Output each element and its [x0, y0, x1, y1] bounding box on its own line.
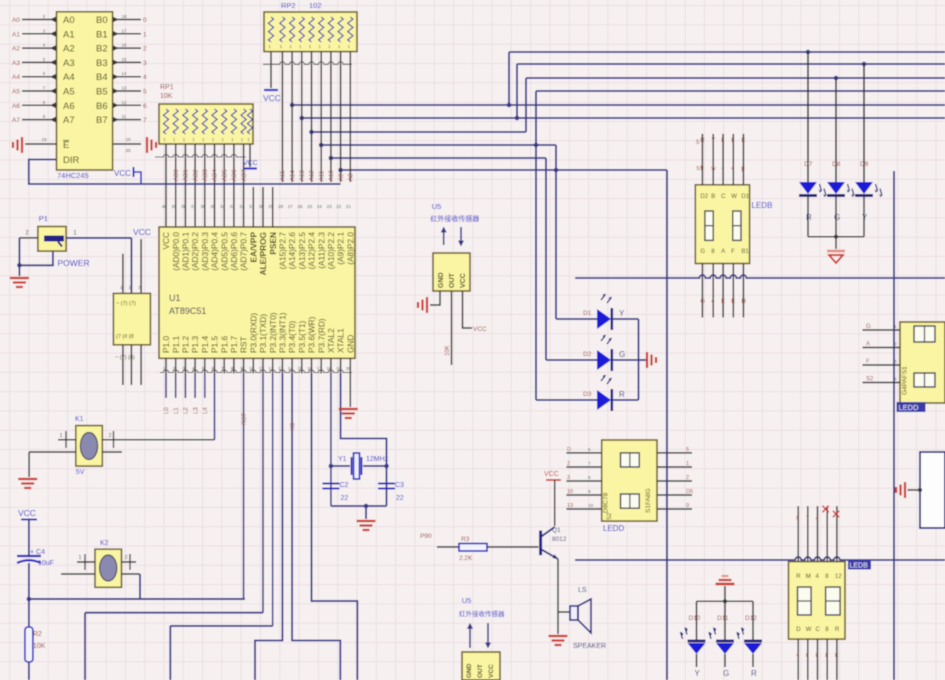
svg-text:AD4: AD4	[213, 169, 219, 181]
svg-text:L2: L2	[184, 407, 190, 414]
svg-text:4: 4	[816, 516, 819, 522]
svg-text:B6: B6	[96, 101, 108, 112]
svg-text:B7: B7	[96, 115, 108, 126]
svg-text:(AD7)P0.7: (AD7)P0.7	[239, 232, 249, 271]
svg-text:VCC: VCC	[18, 508, 36, 518]
svg-text:G: G	[866, 324, 871, 330]
svg-text:Y: Y	[619, 309, 625, 318]
svg-text:A9: A9	[339, 173, 345, 181]
svg-text:w: w	[710, 166, 716, 172]
svg-text:L: L	[825, 653, 828, 659]
svg-text:22: 22	[341, 495, 349, 502]
svg-text:13: 13	[567, 503, 573, 509]
svg-text:P3.5(T1): P3.5(T1)	[297, 320, 307, 353]
svg-text:G: G	[700, 249, 705, 255]
svg-text:~ (7) (8): ~ (7) (8)	[115, 355, 135, 361]
svg-text:E: E	[63, 140, 69, 151]
svg-text:OUT: OUT	[449, 273, 456, 289]
svg-text:2: 2	[124, 555, 127, 561]
svg-text:(AD6)P0.6: (AD6)P0.6	[229, 232, 239, 271]
svg-text:15: 15	[121, 57, 127, 62]
svg-text:G: G	[723, 669, 729, 678]
svg-text:(7 (# (8: (7 (# (8	[116, 334, 134, 340]
svg-text:E: E	[741, 138, 745, 144]
svg-text:27: 27	[288, 204, 294, 209]
svg-text:A8: A8	[349, 173, 355, 181]
svg-text:Y: Y	[862, 213, 868, 222]
svg-text:29: 29	[268, 204, 274, 209]
svg-text:23: 23	[327, 204, 333, 209]
svg-text:A: A	[721, 249, 725, 255]
svg-text:A4: A4	[63, 72, 75, 83]
svg-text:B4: B4	[96, 72, 108, 83]
svg-text:AD6: AD6	[232, 169, 238, 181]
svg-text:A1: A1	[12, 31, 20, 38]
svg-text:7: 7	[143, 117, 147, 124]
svg-text:(A14)P2.6: (A14)P2.6	[287, 232, 297, 270]
svg-text:P3.3(INT1): P3.3(INT1)	[278, 312, 288, 353]
svg-text:10: 10	[125, 137, 131, 142]
svg-text:VCC: VCC	[133, 227, 151, 237]
svg-text:21: 21	[346, 204, 352, 209]
svg-text:P3.1(TXD): P3.1(TXD)	[258, 314, 268, 353]
svg-text:36: 36	[200, 204, 206, 209]
svg-text:(A9)P2.1: (A9)P2.1	[336, 232, 346, 265]
svg-text:(AD1)P0.1: (AD1)P0.1	[181, 232, 191, 271]
svg-text:A4: A4	[12, 74, 20, 81]
svg-text:~ (7) (7): ~ (7) (7)	[116, 301, 136, 307]
svg-text:D11: D11	[717, 615, 729, 622]
svg-text:(AD4)P0.4: (AD4)P0.4	[210, 232, 220, 271]
svg-text:5: 5	[686, 447, 689, 453]
svg-text:K2: K2	[100, 540, 109, 547]
svg-text:(A10)P2.2: (A10)P2.2	[326, 232, 336, 270]
svg-text:5: 5	[143, 89, 147, 96]
svg-text:U5: U5	[462, 596, 472, 605]
svg-text:G: G	[619, 350, 625, 359]
svg-text:D9: D9	[860, 161, 869, 168]
svg-text:D12: D12	[745, 615, 757, 622]
svg-text:W: W	[806, 627, 812, 633]
svg-text:R: R	[835, 627, 840, 633]
svg-text:R: R	[806, 213, 812, 222]
svg-text:S2: S2	[866, 377, 874, 383]
svg-text:F: F	[866, 359, 870, 365]
svg-text:DIR: DIR	[63, 155, 80, 166]
svg-text:AD7: AD7	[242, 169, 248, 181]
svg-text:P1.4: P1.4	[200, 336, 210, 353]
svg-text:28: 28	[278, 204, 284, 209]
svg-text:2: 2	[108, 433, 111, 439]
svg-text:D8: D8	[832, 161, 841, 168]
svg-text:2: 2	[143, 46, 147, 53]
svg-text:R: R	[751, 669, 757, 678]
svg-text:E: E	[721, 299, 725, 305]
svg-text:-: -	[721, 166, 723, 172]
svg-text:10K: 10K	[160, 93, 173, 100]
svg-text:RP2: RP2	[281, 1, 296, 10]
svg-text:26: 26	[297, 204, 303, 209]
svg-text:A7: A7	[12, 117, 20, 124]
svg-text:AD2: AD2	[193, 169, 199, 181]
svg-text:VCC: VCC	[263, 93, 281, 103]
svg-text:2.2K: 2.2K	[459, 555, 473, 562]
svg-text:E: E	[731, 299, 735, 305]
svg-text:+ C4: + C4	[30, 549, 45, 556]
svg-text:A12: A12	[310, 170, 316, 181]
svg-text:R: R	[700, 138, 705, 144]
svg-text:P1.3: P1.3	[190, 336, 200, 353]
svg-text:GND: GND	[466, 663, 473, 678]
svg-text:P1.0: P1.0	[161, 336, 171, 353]
svg-text:POWER: POWER	[58, 258, 90, 268]
svg-text:Q1: Q1	[552, 527, 561, 534]
svg-text:R2: R2	[33, 631, 42, 638]
svg-text:RST: RST	[239, 336, 249, 353]
svg-text:A1: A1	[63, 29, 75, 40]
svg-text:(A12)P2.4: (A12)P2.4	[307, 232, 317, 270]
svg-text:34: 34	[220, 204, 226, 209]
svg-text:K0: K0	[290, 422, 296, 430]
svg-text:E: E	[835, 653, 839, 659]
svg-text:D8C78: D8C78	[603, 492, 610, 513]
svg-text:12: 12	[121, 100, 127, 105]
svg-text:R: R	[796, 574, 801, 580]
svg-text:XTAL2: XTAL2	[326, 328, 336, 353]
svg-text:LEDD: LEDD	[603, 524, 625, 533]
svg-text:VCC: VCC	[161, 232, 171, 250]
svg-text:P1.6: P1.6	[219, 336, 229, 353]
svg-text:G4PAFS1: G4PAFS1	[902, 366, 909, 395]
svg-text:VCC: VCC	[473, 326, 487, 333]
svg-text:ALE/PROG: ALE/PROG	[258, 232, 268, 275]
svg-text:K1: K1	[75, 416, 84, 423]
svg-text:B0: B0	[96, 15, 108, 26]
svg-text:4: 4	[796, 653, 799, 659]
svg-text:4: 4	[143, 74, 147, 81]
svg-text:B1: B1	[741, 249, 749, 255]
svg-text:C: C	[721, 194, 726, 200]
svg-text:红外接收传感器: 红外接收传感器	[430, 214, 479, 223]
svg-text:F: F	[731, 249, 735, 255]
svg-text:C2: C2	[340, 482, 349, 489]
svg-text:31: 31	[249, 204, 255, 209]
svg-text:AD1: AD1	[184, 169, 190, 181]
svg-text:2: 2	[567, 461, 570, 467]
svg-text:LEDD: LEDD	[899, 403, 920, 412]
svg-text:SPEAKER: SPEAKER	[573, 643, 606, 650]
svg-text:U5: U5	[432, 202, 442, 211]
svg-text:P3.4(T0): P3.4(T0)	[287, 320, 297, 353]
svg-text:RP1: RP1	[160, 84, 174, 91]
svg-text:L1: L1	[174, 407, 180, 414]
svg-text:A11: A11	[319, 170, 325, 181]
svg-text:H: H	[741, 299, 745, 305]
svg-text:17: 17	[121, 28, 127, 33]
svg-text:3: 3	[567, 475, 570, 481]
svg-text:GND: GND	[345, 335, 355, 353]
svg-text:Y: Y	[695, 669, 701, 678]
svg-text:D1: D1	[583, 310, 592, 317]
svg-text:Y: Y	[711, 138, 715, 144]
svg-text:1: 1	[686, 461, 689, 467]
svg-text:(AD5)P0.5: (AD5)P0.5	[219, 232, 229, 271]
svg-text:D2: D2	[700, 194, 708, 200]
svg-text:10K: 10K	[33, 643, 46, 650]
svg-text:C3: C3	[395, 482, 404, 489]
svg-text:D7: D7	[804, 161, 813, 168]
svg-text:P1.7: P1.7	[229, 336, 239, 353]
svg-text:LS: LS	[578, 587, 587, 594]
svg-text:P1.1: P1.1	[171, 336, 181, 353]
svg-text:L3: L3	[193, 407, 199, 414]
svg-text:PSEN: PSEN	[268, 232, 278, 255]
svg-text:A3: A3	[63, 58, 75, 69]
svg-text:GND: GND	[438, 272, 445, 288]
svg-text:EA/VPP: EA/VPP	[248, 232, 258, 263]
svg-text:B: B	[711, 194, 715, 200]
svg-text:16: 16	[121, 43, 127, 48]
svg-text:LEDB: LEDB	[752, 201, 773, 210]
svg-text:5V: 5V	[76, 469, 85, 476]
svg-text:W: W	[731, 194, 737, 200]
svg-text:LEDB: LEDB	[850, 563, 869, 570]
svg-text:10: 10	[588, 503, 594, 508]
svg-text:AT89C51: AT89C51	[169, 306, 206, 316]
svg-text:G: G	[700, 299, 705, 305]
svg-text:A2: A2	[12, 46, 20, 53]
svg-text:18: 18	[121, 14, 127, 19]
svg-text:S1: S1	[696, 166, 703, 172]
svg-text:1: 1	[143, 31, 147, 38]
svg-text:1: 1	[78, 555, 81, 561]
svg-text:(AD0)P0.0: (AD0)P0.0	[171, 232, 181, 271]
svg-text:XTAL1: XTAL1	[336, 328, 346, 353]
svg-text:38: 38	[181, 204, 187, 209]
svg-text:37: 37	[191, 204, 197, 209]
svg-text:5: 5	[796, 516, 799, 522]
svg-text:10: 10	[567, 489, 573, 495]
svg-text:M: M	[806, 574, 811, 580]
svg-text:R: R	[619, 390, 625, 399]
svg-text:33: 33	[230, 204, 236, 209]
svg-text:(A11)P2.3: (A11)P2.3	[316, 232, 326, 269]
svg-text:U1: U1	[169, 293, 181, 303]
svg-text:8: 8	[806, 653, 809, 659]
svg-text:B3: B3	[96, 58, 108, 69]
svg-text:40: 40	[162, 204, 168, 209]
svg-text:35: 35	[210, 204, 216, 209]
svg-text:13: 13	[121, 86, 127, 91]
svg-text:(A8)P2.0: (A8)P2.0	[345, 232, 355, 265]
svg-text:B5: B5	[96, 87, 108, 98]
svg-text:VCC: VCC	[243, 160, 258, 167]
svg-text:25: 25	[307, 204, 313, 209]
svg-text:A2: A2	[63, 44, 75, 55]
svg-text:红外接收传感器: 红外接收传感器	[459, 609, 505, 618]
svg-text:8012: 8012	[552, 536, 567, 543]
svg-text:B1: B1	[96, 29, 108, 40]
svg-text:G: G	[834, 213, 840, 222]
svg-text:L: L	[816, 653, 819, 659]
svg-text:OUT: OUT	[477, 664, 484, 678]
svg-text:S1FA8G: S1FA8G	[645, 488, 652, 513]
svg-text:C: C	[816, 627, 821, 633]
svg-text:RST: RST	[242, 413, 248, 425]
svg-text:11: 11	[122, 114, 127, 119]
svg-text:A10: A10	[329, 170, 335, 181]
svg-text:102: 102	[309, 1, 322, 10]
svg-text:A: A	[866, 342, 870, 348]
svg-text:AD5: AD5	[222, 169, 228, 181]
svg-text:30: 30	[259, 204, 265, 209]
svg-text:B2: B2	[96, 44, 108, 55]
svg-text:P1.5: P1.5	[210, 336, 220, 353]
svg-text:A3: A3	[12, 60, 20, 67]
svg-text:22: 22	[336, 204, 342, 209]
svg-text:A6: A6	[63, 101, 75, 112]
svg-text:AD3: AD3	[203, 169, 209, 181]
svg-text:A0: A0	[12, 17, 20, 24]
svg-text:A14: A14	[290, 170, 296, 181]
svg-text:L0: L0	[164, 407, 170, 414]
svg-text:24: 24	[317, 204, 323, 209]
svg-text:A5: A5	[63, 87, 75, 98]
svg-text:P3.2(INT0): P3.2(INT0)	[268, 312, 278, 353]
svg-text:3: 3	[143, 60, 147, 67]
svg-text:D: D	[567, 447, 571, 453]
svg-text:10uF: 10uF	[38, 560, 54, 567]
svg-text:P1.2: P1.2	[181, 336, 191, 353]
svg-text:0: 0	[686, 503, 689, 509]
svg-text:12: 12	[835, 574, 842, 580]
svg-text:(A15)P2.7: (A15)P2.7	[278, 232, 288, 270]
svg-text:6: 6	[143, 103, 147, 110]
svg-text:A5: A5	[12, 89, 20, 96]
svg-text:D5: D5	[686, 489, 693, 495]
svg-text:A0: A0	[63, 15, 75, 26]
svg-text:1: 1	[59, 433, 62, 439]
svg-text:20: 20	[125, 148, 131, 153]
svg-text:AD0: AD0	[174, 169, 180, 181]
svg-text:(AD3)P0.3: (AD3)P0.3	[200, 232, 210, 271]
svg-text:D3: D3	[583, 391, 592, 398]
svg-text:A7: A7	[63, 115, 75, 126]
svg-text:19: 19	[41, 137, 47, 142]
svg-text:P90: P90	[420, 533, 432, 540]
svg-text:L4: L4	[203, 407, 209, 414]
svg-text:20: 20	[346, 366, 352, 371]
svg-text:(A13)P2.5: (A13)P2.5	[297, 232, 307, 270]
svg-text:VCC: VCC	[460, 273, 467, 288]
svg-text:P3.7(RD): P3.7(RD)	[316, 318, 326, 353]
svg-text:D1: D1	[741, 194, 749, 200]
svg-text:2: 2	[686, 475, 689, 481]
svg-text:74HC245: 74HC245	[57, 171, 89, 180]
svg-text:A15: A15	[281, 170, 287, 181]
svg-text:P3.0(RXD): P3.0(RXD)	[248, 313, 258, 353]
svg-text:P1: P1	[39, 214, 48, 223]
svg-text:0: 0	[143, 17, 147, 24]
svg-text:22: 22	[396, 495, 404, 502]
svg-text:10K: 10K	[445, 345, 451, 356]
svg-text:D: D	[796, 627, 801, 633]
svg-text:VCC: VCC	[544, 471, 559, 478]
svg-text:R3: R3	[461, 536, 470, 543]
svg-text:S2: S2	[607, 512, 613, 520]
svg-text:32: 32	[239, 204, 245, 209]
svg-text:14: 14	[121, 71, 127, 76]
svg-text:39: 39	[171, 204, 177, 209]
svg-text:A13: A13	[300, 170, 306, 181]
svg-text:D10: D10	[689, 615, 701, 622]
svg-text:VCC: VCC	[114, 169, 131, 178]
svg-text:A6: A6	[12, 103, 20, 110]
svg-text:D2: D2	[583, 351, 592, 358]
svg-text:Y1: Y1	[338, 456, 347, 463]
svg-text:VCC: VCC	[488, 664, 495, 678]
svg-text:12MHz: 12MHz	[366, 456, 389, 463]
svg-text:(AD2)P0.2: (AD2)P0.2	[190, 232, 200, 271]
svg-text:P3.6(WR): P3.6(WR)	[307, 316, 317, 353]
